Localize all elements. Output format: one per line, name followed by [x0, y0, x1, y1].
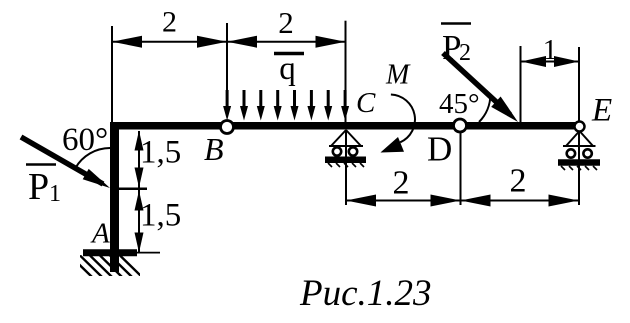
bottom dimension extension at C [345, 130, 347, 205]
force P1 arrowhead [83, 169, 110, 188]
force P2 arrowhead [491, 97, 518, 123]
label P1 overline [26, 163, 56, 166]
ground bar under C support [325, 156, 366, 163]
svg-text:2: 2 [393, 165, 410, 202]
svg-text:1: 1 [543, 34, 558, 66]
svg-text:2: 2 [278, 5, 294, 40]
svg-text:Puc.1.23: Puc.1.23 [299, 273, 432, 314]
top dimension line [112, 41, 346, 43]
bottom dimension line [346, 200, 579, 202]
svg-text:D: D [427, 130, 452, 169]
node B pin circle [221, 121, 234, 134]
svg-text:q: q [279, 51, 296, 87]
moment M arc [391, 95, 415, 143]
dim arrow up from mid tick [135, 191, 144, 211]
svg-text:A: A [90, 218, 110, 250]
thin ledger line right of ground bar at A [135, 252, 160, 254]
svg-text:E: E [591, 93, 612, 129]
svg-text:60°: 60° [62, 122, 108, 158]
dimension 1 extension line at E (above beam) [578, 47, 580, 121]
dim arrow down to ground [135, 233, 144, 253]
hatch ticks under E bar [561, 166, 597, 170]
top dimension extension line at corner [111, 26, 113, 122]
bottom dim arrow right outward at E [549, 195, 579, 207]
force P1 line [21, 137, 103, 184]
distributed load q arrows [227, 90, 345, 110]
hatching below ground at A [70, 256, 142, 278]
60 degree arc [75, 148, 110, 168]
roller support at E: triangle [563, 131, 596, 146]
top dimension extension line at B [226, 23, 228, 96]
top dim arrow left of span2 [227, 36, 257, 48]
svg-text:P: P [28, 166, 49, 208]
svg-text:M: M [385, 60, 411, 91]
label P2 overline [441, 22, 471, 25]
bottom dim arrow left of span D-E [461, 195, 491, 207]
vertical dimension line 1,5/1,5 [138, 131, 140, 253]
node E pin circle [575, 122, 585, 132]
dim arrow down to mid tick [135, 168, 144, 188]
bottom dimension extension at D [460, 133, 462, 205]
ground bar under E support [558, 159, 600, 166]
ground bar at A [83, 249, 137, 256]
svg-text:1: 1 [49, 181, 61, 207]
top dim arrow right of span1 [197, 36, 227, 48]
force P2 line [443, 53, 510, 115]
svg-text:1,5: 1,5 [140, 135, 181, 171]
dimension line 1 [521, 61, 580, 63]
svg-text:C: C [356, 87, 376, 119]
dim arrow up (beam side) [135, 131, 144, 151]
roller wheels at C [333, 147, 341, 155]
column (vertical member from corner down to A) [110, 122, 119, 272]
roller wheels at E [567, 149, 575, 157]
dim-1 arrow right [554, 56, 579, 67]
top dim arrow left outward [112, 36, 142, 48]
dimension 1 extension line (P2 point) [520, 46, 522, 122]
svg-text:B: B [204, 131, 224, 167]
bottom dim arrow right of span C-D [431, 195, 461, 207]
label q overline [274, 52, 304, 56]
node D pin circle [454, 119, 467, 132]
45 degree arc [479, 94, 490, 122]
svg-text:1,5: 1,5 [140, 198, 181, 234]
bottom dimension extension at E [578, 131, 580, 205]
svg-text:2: 2 [162, 6, 177, 39]
svg-text:2: 2 [510, 163, 527, 200]
mid tick on column (1.5/1.5 separator) [114, 188, 147, 191]
beam (horizontal member A-corner to E) [110, 122, 580, 130]
svg-text:2: 2 [459, 40, 471, 66]
roller support at C: triangle [329, 130, 363, 146]
top dim arrow right outward at C [316, 36, 346, 48]
top dimension extension line at C [345, 21, 347, 122]
svg-text:45°: 45° [439, 88, 480, 120]
dim-1 arrow left [521, 56, 546, 67]
bottom dim arrow left outward at C [346, 195, 376, 207]
hatch ticks under C bar [328, 163, 364, 167]
moment M arrowhead [381, 137, 405, 153]
